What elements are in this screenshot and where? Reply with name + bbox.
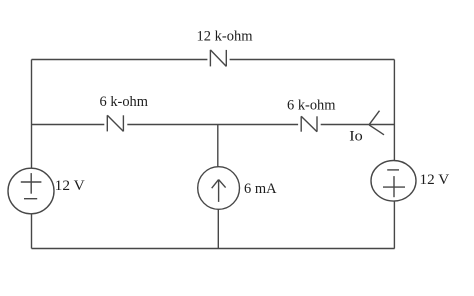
wire middle segment B: [127, 124, 298, 126]
svg-text:12 V: 12 V: [420, 172, 450, 188]
resistor R1 12 k-ohm (N symbol): [210, 50, 226, 67]
wire left vertical lower: [31, 214, 33, 249]
wire top right segment: [230, 59, 395, 61]
svg-text:12 k-ohm: 12 k-ohm: [197, 29, 254, 45]
wire bottom rail: [32, 248, 395, 250]
V1 plus sign: [21, 173, 42, 194]
current arrow Io (arrowhead pointing left): [369, 111, 384, 135]
V1 minus sign: [24, 198, 37, 200]
voltage source V2 circle: [371, 161, 416, 202]
svg-text:6 mA: 6 mA: [244, 181, 277, 197]
wire middle segment A: [32, 124, 105, 126]
wire right vertical upper: [393, 60, 395, 161]
resistor R3 6 k-ohm right (N symbol): [301, 116, 317, 131]
current source I1 circle: [198, 167, 240, 210]
svg-text:Io: Io: [349, 129, 363, 145]
wire middle vertical lower: [217, 210, 219, 249]
svg-text:6 k-ohm: 6 k-ohm: [100, 94, 149, 110]
wire middle segment C: [321, 124, 395, 126]
wire middle vertical upper: [217, 125, 219, 167]
wire right vertical lower: [393, 201, 395, 249]
wire top left segment: [32, 59, 208, 61]
svg-text:6 k-ohm: 6 k-ohm: [287, 98, 336, 114]
I1 arrow up: [212, 180, 226, 202]
voltage source V1 circle: [8, 168, 54, 214]
V2 plus sign: [383, 176, 405, 197]
svg-text:12 V: 12 V: [55, 178, 86, 194]
resistor R2 6 k-ohm left (N symbol): [107, 115, 123, 131]
V2 minus sign: [387, 169, 399, 171]
wire left vertical upper: [31, 60, 33, 169]
